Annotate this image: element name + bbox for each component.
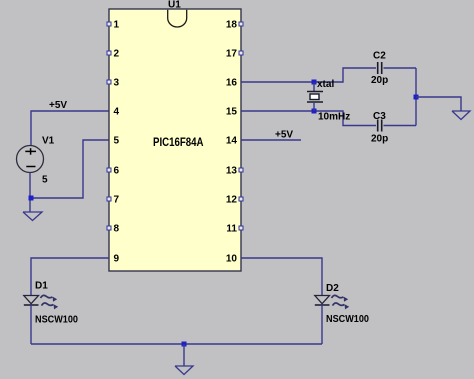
svg-text:5: 5 — [114, 136, 120, 147]
svg-text:7: 7 — [114, 195, 120, 206]
svg-text:8: 8 — [114, 224, 120, 235]
svg-text:10mHz: 10mHz — [318, 112, 350, 123]
svg-text:3: 3 — [114, 78, 120, 89]
svg-text:C3: C3 — [373, 111, 386, 122]
junction xtal bottom — [312, 109, 317, 114]
wire junction to center ground — [183, 344, 185, 366]
ground center — [175, 366, 193, 375]
svg-text:C2: C2 — [373, 51, 386, 62]
svg-text:15: 15 — [226, 107, 238, 118]
crystal X1 — [307, 82, 323, 111]
wire V1 bottom to ground — [29, 173, 31, 213]
wire D2 to bus — [321, 305, 323, 344]
svg-text:4: 4 — [114, 107, 120, 118]
svg-text:PIC16F84A: PIC16F84A — [153, 135, 204, 149]
svg-text:2: 2 — [114, 49, 120, 60]
wire C3 right to right rail — [384, 125, 417, 127]
wire pin4 to V1 top (+5V net) — [31, 111, 109, 146]
junction V1 bottom — [29, 196, 34, 201]
svg-text:NSCW100: NSCW100 — [326, 314, 369, 325]
LED D2 — [315, 283, 370, 325]
voltage source V1 — [17, 136, 55, 186]
svg-text:+5V: +5V — [275, 130, 293, 141]
wire pin10 to D2 — [241, 258, 322, 296]
svg-text:xtal: xtal — [317, 79, 334, 90]
wire junction to right ground — [416, 97, 461, 111]
ground right — [452, 111, 470, 120]
svg-text:20p: 20p — [371, 75, 388, 86]
wire C2 right to right rail — [384, 67, 417, 69]
svg-text:12: 12 — [226, 195, 238, 206]
wire D1 to bus — [30, 305, 32, 344]
svg-text:16: 16 — [226, 78, 238, 89]
junction right rail — [414, 95, 419, 100]
unconnected pin markers right (pins 18,17,13,12,11) — [239, 22, 243, 230]
unconnected pin markers left (pins 1,2,3,6,7,8) — [107, 22, 111, 230]
svg-text:D1: D1 — [35, 281, 48, 292]
svg-text:20p: 20p — [371, 134, 388, 145]
ground under V1 — [23, 212, 42, 221]
junction bus center — [182, 342, 187, 347]
wire ground bus — [31, 343, 322, 345]
svg-text:17: 17 — [226, 49, 238, 60]
svg-text:6: 6 — [114, 166, 120, 177]
capacitor C3 — [371, 111, 388, 145]
capacitor C2 — [371, 51, 388, 87]
svg-text:10: 10 — [226, 254, 238, 265]
wire right rail vertical — [415, 68, 417, 126]
junction xtal top — [312, 80, 317, 85]
svg-text:V1: V1 — [42, 136, 55, 147]
wire pin5 to V1 bottom junction — [31, 140, 109, 198]
LED D1 — [24, 281, 79, 326]
svg-text:NSCW100: NSCW100 — [35, 315, 78, 326]
svg-text:13: 13 — [226, 166, 238, 177]
IC U1 PIC16F84A — [109, 0, 241, 271]
wire pin16 to crystal top / C2 — [241, 68, 376, 82]
svg-text:9: 9 — [114, 254, 120, 265]
right pin numbers — [226, 20, 238, 265]
svg-text:11: 11 — [226, 224, 237, 235]
wire pin14 +5V stub — [241, 139, 301, 141]
svg-text:18: 18 — [226, 20, 238, 31]
wire pin9 to D1 — [31, 258, 109, 296]
svg-text:14: 14 — [226, 136, 238, 147]
svg-text:5: 5 — [42, 175, 48, 186]
left pin numbers — [114, 20, 120, 265]
svg-text:D2: D2 — [326, 283, 339, 294]
svg-text:U1: U1 — [168, 0, 181, 11]
svg-text:1: 1 — [114, 20, 120, 31]
svg-text:+5V: +5V — [49, 100, 67, 111]
wire pin15 to crystal bottom / C3 — [241, 111, 376, 126]
